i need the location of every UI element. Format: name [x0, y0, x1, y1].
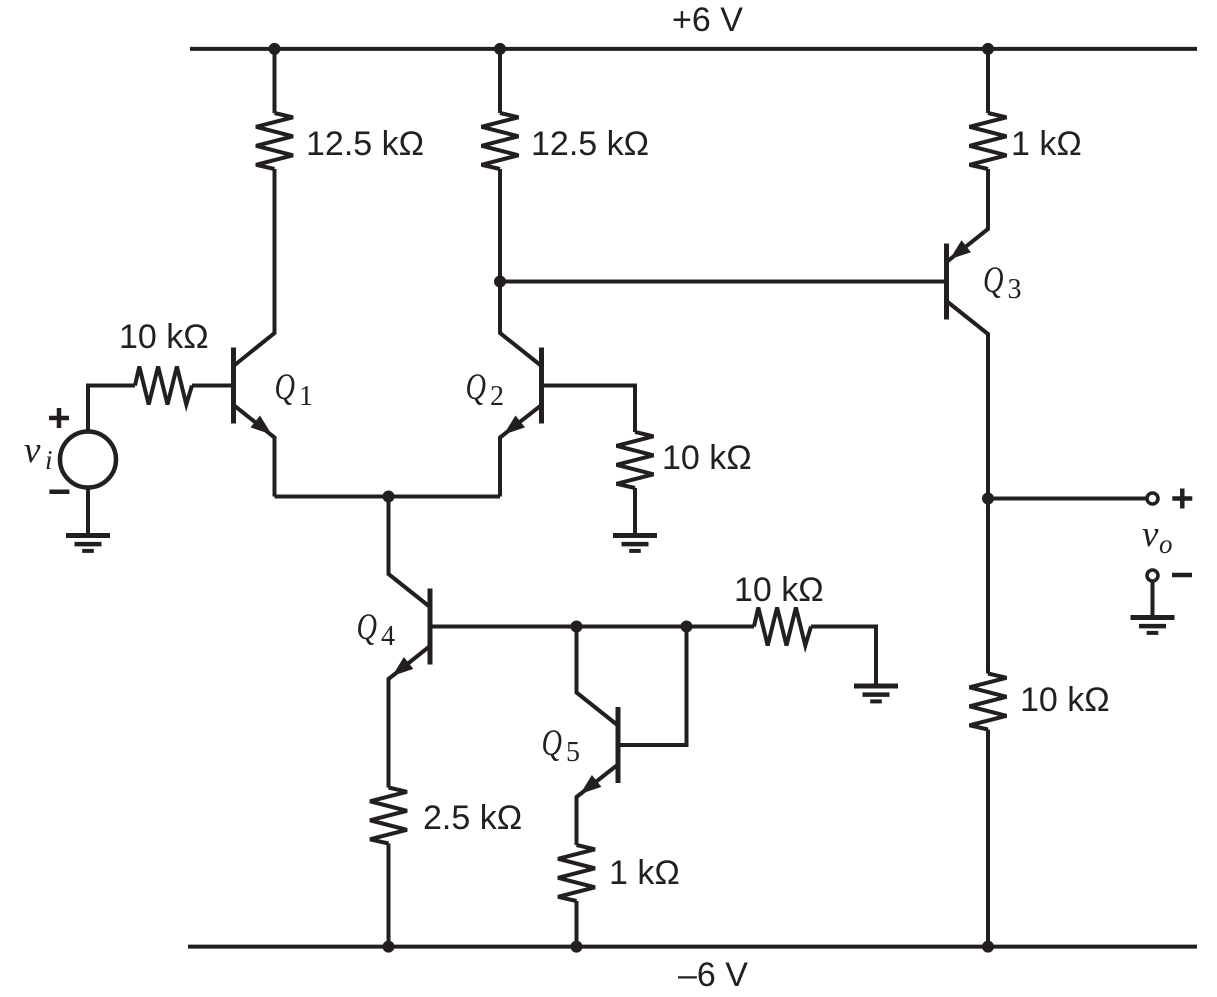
resistor 10k bias: [754, 608, 811, 646]
label vo plus sign: [1172, 489, 1192, 509]
ground output: [1131, 618, 1175, 633]
ground below Q2 base resistor: [613, 536, 657, 551]
svg-text:Q: Q: [275, 367, 296, 408]
wire R3 to Q3 emitter: [947, 169, 989, 262]
node bias line / Q5 base: [681, 621, 693, 633]
svg-text:1: 1: [299, 381, 313, 412]
label +6 V: [672, 1, 743, 39]
wire emitters node to Q4 collector: [389, 497, 431, 608]
wire output 10k to rail: [986, 730, 990, 947]
label 12.5 kOhm right: [531, 125, 649, 163]
wire 1k to rail: [575, 901, 579, 947]
wire 10k to ground: [633, 488, 637, 533]
svg-text:4: 4: [381, 621, 395, 652]
node bottom rail / output 10k: [982, 941, 994, 953]
resistor 2.5k: [370, 788, 407, 844]
resistor 10k input: [135, 367, 192, 405]
resistor 10k output: [970, 674, 1007, 730]
label Q1: [275, 367, 314, 412]
wire bias line to Q5 collector: [577, 627, 619, 726]
label vi: [24, 430, 53, 475]
svg-text:5: 5: [566, 737, 580, 768]
svg-text:Q: Q: [357, 607, 378, 648]
resistor 10k at Q2 base: [617, 432, 654, 488]
transistor Q4 emitter: [389, 646, 431, 788]
node top rail / R3: [982, 43, 994, 55]
wire rail to R2: [498, 49, 502, 113]
transistor Q5 bar: [616, 707, 621, 783]
svg-text:–6 V: –6 V: [678, 956, 748, 994]
transistor Q2 emitter: [500, 405, 542, 497]
transistor Q3 bar: [944, 244, 949, 320]
svg-text:Q: Q: [466, 367, 487, 408]
label vo minus sign: [1172, 573, 1192, 578]
label 10 kOhm output: [1020, 681, 1110, 719]
wire output node to terminal: [988, 497, 1146, 501]
svg-text:Q: Q: [542, 723, 563, 764]
wire -6V bottom supply rail: [188, 945, 1197, 949]
label Q5: [542, 723, 581, 768]
wire input resistor to Q1 base: [192, 384, 232, 388]
label 10 kOhm Q2 base: [662, 439, 752, 477]
svg-text:2.5 kΩ: 2.5 kΩ: [423, 799, 522, 837]
transistor Q3 collector: [947, 301, 989, 499]
label 1 kOhm top: [1011, 125, 1082, 163]
label 12.5 kOhm left: [306, 125, 424, 163]
resistor R1 12.5k: [256, 113, 293, 169]
label vi minus sign: [49, 489, 69, 494]
label vi plus sign: [49, 408, 69, 428]
svg-text:3: 3: [1008, 274, 1022, 305]
label 1 kOhm Q5: [609, 854, 680, 892]
wire R2 to Q2 collector: [500, 169, 542, 366]
terminal vo plus circle: [1147, 493, 1158, 504]
svg-text:o: o: [1159, 529, 1173, 559]
source vi circle: [60, 432, 116, 488]
resistor 1k Q5: [558, 845, 595, 901]
label Q2: [466, 367, 505, 412]
label -6 V: [678, 956, 748, 994]
svg-text:i: i: [45, 445, 53, 475]
svg-text:Q: Q: [983, 260, 1004, 301]
node bottom rail / 1k: [571, 941, 583, 953]
resistor R3 1k: [970, 113, 1007, 169]
label Q4: [357, 607, 396, 652]
transistor Q2 emitter arrow: [504, 416, 525, 435]
label 10 kOhm input: [119, 318, 209, 356]
node diff emitters / Q4: [383, 491, 395, 503]
wire Q2 collector to Q3 base: [500, 280, 945, 284]
terminal vo minus circle: [1147, 570, 1158, 581]
transistor Q3 emitter arrow: [950, 240, 971, 259]
wire Q5 base to bias line: [620, 627, 687, 746]
wire output node to 10k: [986, 499, 990, 674]
svg-text:10 kΩ: 10 kΩ: [662, 439, 752, 477]
transistor Q2 bar: [539, 348, 544, 424]
svg-text:10 kΩ: 10 kΩ: [1020, 681, 1110, 719]
svg-text:v: v: [1142, 514, 1159, 555]
transistor Q1 emitter: [234, 405, 275, 497]
transistor Q4 bar: [428, 589, 433, 665]
wire vi to input resistor: [88, 386, 135, 432]
wire R1 to Q1 collector: [234, 169, 275, 366]
wire vi to ground: [86, 488, 90, 534]
node output: [982, 493, 994, 505]
node top rail / R1: [269, 43, 281, 55]
label 2.5 kOhm: [423, 799, 522, 837]
svg-text:10 kΩ: 10 kΩ: [119, 318, 209, 356]
ground below vi: [66, 536, 110, 551]
node bottom rail / 2.5k: [383, 941, 395, 953]
wire Q4 base line: [432, 625, 754, 629]
svg-text:1 kΩ: 1 kΩ: [609, 854, 680, 892]
transistor Q5 emitter arrow: [580, 775, 601, 794]
transistor Q1 emitter arrow: [251, 416, 272, 435]
wire +6V top supply rail: [190, 47, 1197, 51]
svg-text:+6 V: +6 V: [672, 1, 743, 39]
node Q2 collector / Q3 base: [494, 276, 506, 288]
wire Q2 base to 10k: [544, 386, 636, 433]
node top rail / R2: [494, 43, 506, 55]
wire rail to R3: [986, 49, 990, 113]
svg-text:v: v: [24, 430, 41, 471]
ground bias: [854, 686, 898, 701]
svg-text:12.5 kΩ: 12.5 kΩ: [531, 125, 649, 163]
label Q3: [983, 260, 1022, 305]
transistor Q1 bar: [231, 348, 236, 424]
resistor R2 12.5k: [482, 113, 519, 169]
wire diff pair emitters: [275, 495, 501, 499]
transistor Q4 emitter arrow: [392, 657, 413, 676]
transistor Q5 emitter: [577, 765, 619, 846]
wire vo minus to ground: [1151, 582, 1155, 617]
svg-text:2: 2: [490, 381, 504, 412]
node bias line / Q5 collector: [571, 621, 583, 633]
wire 2.5k to rail: [387, 844, 391, 947]
label 10 kOhm bias: [734, 571, 824, 609]
wire rail to R1: [273, 49, 277, 113]
svg-text:1 kΩ: 1 kΩ: [1011, 125, 1082, 163]
svg-text:10 kΩ: 10 kΩ: [734, 571, 824, 609]
wire bias resistor to ground: [811, 627, 876, 685]
svg-text:12.5 kΩ: 12.5 kΩ: [306, 125, 424, 163]
label vo: [1142, 514, 1173, 559]
